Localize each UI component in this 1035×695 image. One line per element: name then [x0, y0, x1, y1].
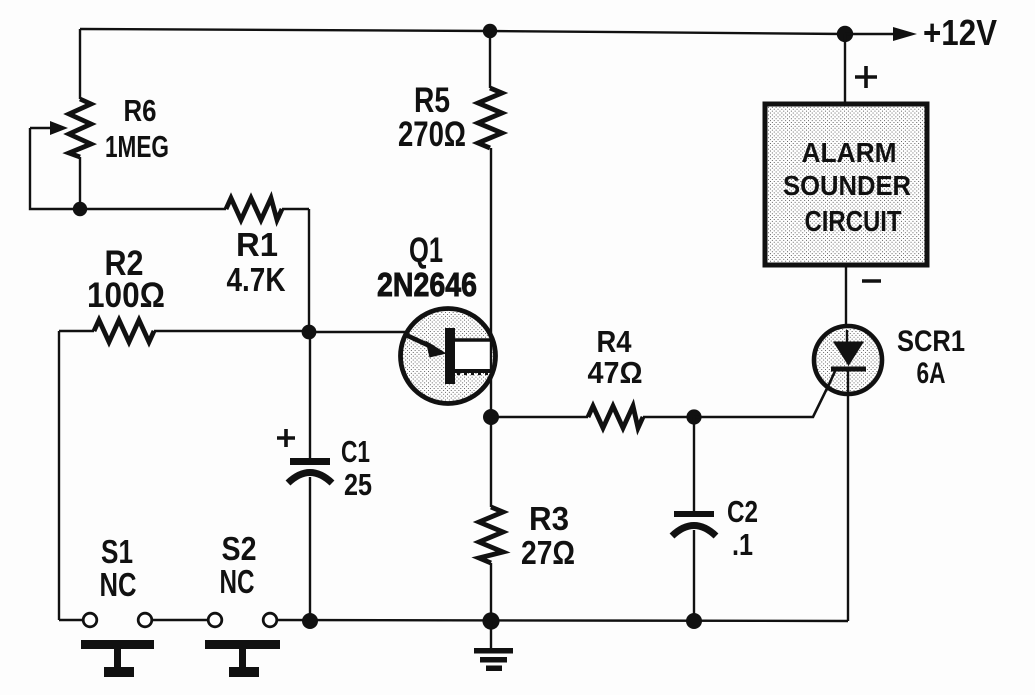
- wire top junction down to R5: [489, 31, 491, 88]
- svg-text:SCR1: SCR1: [897, 325, 965, 358]
- wire corner down to R2 rail: [308, 209, 310, 332]
- node C2 bottom junction: [686, 613, 702, 629]
- S1 label: [100, 533, 137, 603]
- wire R6 bottom: [79, 157, 81, 209]
- node top-rail +12V junction: [837, 26, 853, 42]
- S2 label: [220, 530, 257, 600]
- C2 label: [727, 494, 758, 562]
- ground: [474, 621, 513, 671]
- alarm box plus sign: [855, 66, 877, 88]
- svg-text:S1: S1: [101, 533, 133, 570]
- Q1 label: [377, 231, 477, 303]
- node R6/R1 junction: [73, 202, 87, 216]
- C1 label: [341, 434, 372, 502]
- wire junction to R4: [491, 416, 588, 418]
- svg-text:R6: R6: [124, 93, 157, 128]
- svg-text:Q1: Q1: [409, 231, 443, 270]
- wire top rail: [80, 29, 845, 34]
- svg-text:CIRCUIT: CIRCUIT: [805, 206, 902, 238]
- wire junction to R1: [80, 208, 226, 210]
- wire R4 to C2 junction: [643, 416, 694, 418]
- R5 label: [398, 81, 466, 154]
- thyristor SCR1: [814, 326, 882, 394]
- switch S1 terminals: [83, 613, 152, 627]
- +12V label: [923, 12, 997, 53]
- svg-text:R3: R3: [529, 500, 569, 537]
- wire SCR gate lead: [694, 370, 836, 417]
- svg-text:47Ω: 47Ω: [588, 355, 643, 390]
- wire R2 rail left: [59, 330, 94, 332]
- +12V supply arrow: [845, 27, 917, 41]
- wire S1 to S2: [152, 619, 208, 621]
- wire bottom rail: [277, 620, 848, 621]
- node R4/C2/gate junction: [686, 409, 701, 424]
- wire emitter lead: [309, 331, 406, 333]
- wire R1 to corner: [282, 208, 309, 210]
- svg-text:C2: C2: [727, 494, 758, 529]
- svg-text:C1: C1: [341, 434, 370, 469]
- svg-text:2N2646: 2N2646: [377, 266, 477, 303]
- R6 wiper arrow: [30, 121, 68, 135]
- R4 label: [588, 324, 643, 390]
- resistor R3: [479, 507, 503, 563]
- node Q1 base1 / R4 / R3 junction: [483, 409, 499, 425]
- svg-text:+12V: +12V: [923, 12, 997, 53]
- R3 label: [521, 500, 575, 571]
- R1 label: [227, 226, 286, 298]
- wire R5 to Q1 base column: [490, 148, 492, 417]
- resistor R6 (potentiometer): [69, 99, 91, 157]
- R2 label: [87, 244, 165, 315]
- switch S2 plunger: [205, 640, 280, 677]
- svg-text:S2: S2: [222, 530, 257, 567]
- resistor R1: [226, 198, 282, 220]
- alarm sounder circuit box: [765, 104, 927, 265]
- capacitor C1: [288, 332, 332, 621]
- C1 polarity plus: [277, 429, 295, 447]
- svg-text:25: 25: [344, 467, 372, 502]
- wire R6 wiper loop: [30, 128, 80, 209]
- svg-text:27Ω: 27Ω: [521, 534, 575, 571]
- wire junction down to R3: [490, 417, 492, 507]
- node ground junction: [482, 612, 499, 629]
- capacitor C2: [672, 417, 716, 621]
- svg-text:1MEG: 1MEG: [105, 129, 169, 164]
- svg-text:R4: R4: [597, 324, 633, 359]
- svg-text:ALARM: ALARM: [802, 137, 897, 168]
- switch S2 terminals: [208, 613, 277, 627]
- wire left drop from top rail: [79, 29, 81, 99]
- wire R2 rail right: [154, 330, 309, 332]
- alarm box minus sign: [862, 279, 881, 283]
- node top-rail R5 junction: [483, 24, 497, 38]
- svg-text:SOUNDER: SOUNDER: [783, 170, 911, 201]
- svg-text:270Ω: 270Ω: [398, 115, 466, 154]
- svg-text:NC: NC: [100, 566, 137, 603]
- wire SCR cathode to bottom rail: [847, 394, 849, 621]
- svg-text:NC: NC: [220, 563, 255, 600]
- R6 label: [105, 93, 169, 164]
- svg-text:.1: .1: [732, 527, 753, 562]
- resistor R5: [478, 88, 502, 148]
- resistor R2: [94, 320, 154, 342]
- switch S1 plunger: [81, 640, 154, 677]
- resistor R4: [588, 406, 643, 428]
- SCR1 label: [897, 325, 965, 390]
- node R1/R2/C1 junction: [302, 325, 317, 340]
- node C1 bottom junction: [302, 613, 318, 629]
- wire +12V junction down to alarm box: [844, 34, 846, 104]
- wire S1 lead-in: [59, 619, 83, 621]
- svg-text:R1: R1: [236, 226, 278, 263]
- svg-text:4.7K: 4.7K: [227, 261, 286, 298]
- wire left column down: [58, 331, 60, 620]
- svg-text:100Ω: 100Ω: [87, 276, 165, 315]
- wire alarm box to SCR: [845, 265, 847, 330]
- transistor Q1 2N2646: [401, 309, 496, 404]
- wire R3 to bottom rail: [490, 563, 492, 621]
- svg-text:6A: 6A: [917, 357, 946, 390]
